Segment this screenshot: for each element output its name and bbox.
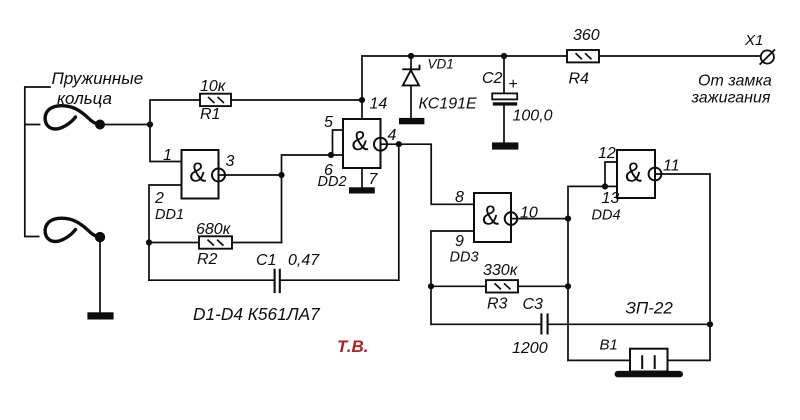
wire DD1 pin 2 [149, 185, 182, 280]
wire DD2 pin 6 stub [331, 154, 343, 156]
svg-text:12: 12 [598, 145, 616, 162]
svg-text:10: 10 [520, 205, 538, 222]
svg-text:7: 7 [369, 171, 379, 188]
svg-text:зажигания: зажигания [691, 90, 771, 107]
wire DD4 pin 13 stub [605, 185, 617, 187]
svg-text:R3: R3 [487, 296, 508, 313]
svg-text:680к: 680к [196, 221, 232, 238]
svg-text:&: & [482, 199, 499, 230]
resistor R3 [486, 280, 518, 292]
wire vertical net pin10/R3/B1 [568, 186, 605, 360]
buzzer B1 [615, 349, 683, 378]
svg-text:&: & [625, 156, 642, 187]
svg-text:ЗП-22: ЗП-22 [626, 299, 674, 318]
wire R2 left [149, 242, 199, 244]
gate DD4 [617, 150, 661, 198]
wire DD3 pin 9 down to C3 row [431, 231, 474, 324]
node junction spring1 [147, 121, 153, 127]
wire DD3 pin 10 output [511, 218, 568, 220]
junction C3 right [707, 321, 713, 327]
svg-text:2: 2 [154, 190, 164, 207]
wire B1 right side [668, 324, 711, 360]
wire R3 row [431, 285, 568, 287]
svg-text:9: 9 [455, 233, 464, 250]
junction DD4 pins 12-13 [602, 183, 608, 189]
wire node to R1 row [150, 100, 200, 125]
svg-text:VD1: VD1 [428, 57, 454, 72]
svg-text:330к: 330к [483, 262, 519, 279]
resistor R2 [199, 236, 232, 248]
wire DD4 pin 11 output [655, 174, 710, 324]
svg-text:C3: C3 [523, 296, 544, 313]
svg-text:8: 8 [455, 189, 464, 206]
wire DD2 pin 14 [361, 56, 363, 119]
junction R3 left [428, 283, 434, 289]
junction DD2 pin 4 [396, 141, 402, 147]
ground DD2 pin 7 [349, 187, 375, 193]
svg-text:13: 13 [602, 190, 620, 207]
svg-text:4: 4 [388, 127, 397, 144]
resistor R4 [567, 50, 599, 62]
wire top supply rail [362, 55, 761, 57]
svg-text:10к: 10к [200, 78, 227, 95]
junction DD2 pins 5-6 [328, 152, 334, 158]
svg-text:14: 14 [370, 96, 388, 113]
op-amp gate DD1 [182, 150, 226, 199]
junction VD1 top [408, 53, 414, 59]
zener diode VD1 [402, 65, 420, 86]
wire C1 row right [280, 279, 398, 281]
junction pin 14 [359, 97, 365, 103]
resistor R1 [200, 94, 231, 106]
svg-text:DD4: DD4 [592, 208, 621, 224]
svg-text:КС191Е: КС191Е [419, 96, 478, 113]
wire spring ring 2 to ground [99, 237, 101, 312]
wire C3 row right [549, 323, 710, 325]
wire pin4 node to DD3 pin 8 [399, 144, 474, 204]
wire DD4 pin 12 bracket [605, 162, 617, 186]
wire C3 row left [431, 323, 540, 325]
wire R1 to DD2 pin 14 vertical [231, 99, 362, 101]
svg-text:3: 3 [226, 153, 235, 170]
svg-text:0,47: 0,47 [288, 252, 320, 269]
wire DD2 pin 4 output [381, 143, 399, 145]
junction DD1 out / DD2 in [278, 172, 284, 178]
wire DD2 pin 7 to ground [361, 168, 363, 187]
capacitor C3 [541, 313, 547, 334]
wire VD1 anode to ground [410, 56, 412, 118]
svg-text:R4: R4 [569, 71, 590, 88]
svg-text:От замка: От замка [698, 73, 772, 90]
svg-text:R2: R2 [197, 251, 218, 268]
junction C2 top [501, 53, 507, 59]
wire DD1 pin 3 output [219, 174, 282, 176]
capacitor C1 [275, 269, 280, 293]
junction R3 right [565, 283, 571, 289]
svg-text:&: & [352, 125, 369, 156]
spring ring 1 [45, 106, 100, 129]
svg-text:C2: C2 [482, 70, 503, 87]
ground under spring ring 2 [87, 312, 113, 319]
gate DD3 [474, 193, 517, 242]
ground under VD1 [399, 118, 424, 124]
gate DD2 [343, 119, 387, 168]
svg-text:DD1: DD1 [155, 207, 184, 223]
svg-text:X1: X1 [744, 32, 763, 49]
wire DD2 pin 5 bracket [333, 130, 344, 155]
svg-text:&: & [189, 156, 206, 187]
svg-text:C1: C1 [256, 252, 276, 269]
junction DD3 pin 10 [565, 216, 571, 222]
svg-text:100,0: 100,0 [513, 108, 553, 125]
wire pin4 node down to C1 row [398, 144, 400, 280]
svg-text:Пружинные: Пружинные [52, 69, 144, 88]
svg-text:DD3: DD3 [450, 250, 479, 266]
terminal X1 [760, 49, 775, 64]
junction R2 left [146, 239, 152, 245]
svg-text:кольца: кольца [57, 89, 112, 108]
svg-text:5: 5 [324, 114, 333, 131]
ground under C2 [492, 142, 518, 149]
svg-text:11: 11 [663, 158, 680, 175]
capacitor C2 electrolytic [492, 93, 517, 105]
wire R2 right to vertical [232, 242, 282, 244]
svg-text:360: 360 [573, 27, 600, 44]
svg-text:1200: 1200 [512, 340, 548, 357]
svg-text:R1: R1 [200, 106, 220, 123]
svg-text:B1: B1 [600, 337, 618, 354]
svg-text:+: + [509, 76, 518, 93]
wire C2 to rail and ground [503, 56, 505, 142]
spring ring 2 [45, 218, 100, 241]
wire node down to DD1 pin 1 [150, 125, 182, 162]
svg-text:Т.В.: Т.В. [337, 337, 368, 356]
svg-text:D1-D4 К561ЛА7: D1-D4 К561ЛА7 [193, 304, 321, 324]
wire spring ring 1 to node [100, 124, 150, 126]
wire B1 left side [568, 359, 630, 361]
svg-text:DD2: DD2 [318, 174, 347, 190]
wire vertical node to DD2 inputs [282, 155, 332, 243]
wire C1 row left [149, 279, 274, 281]
bracket connector frame [25, 87, 50, 237]
svg-text:1: 1 [163, 147, 172, 164]
